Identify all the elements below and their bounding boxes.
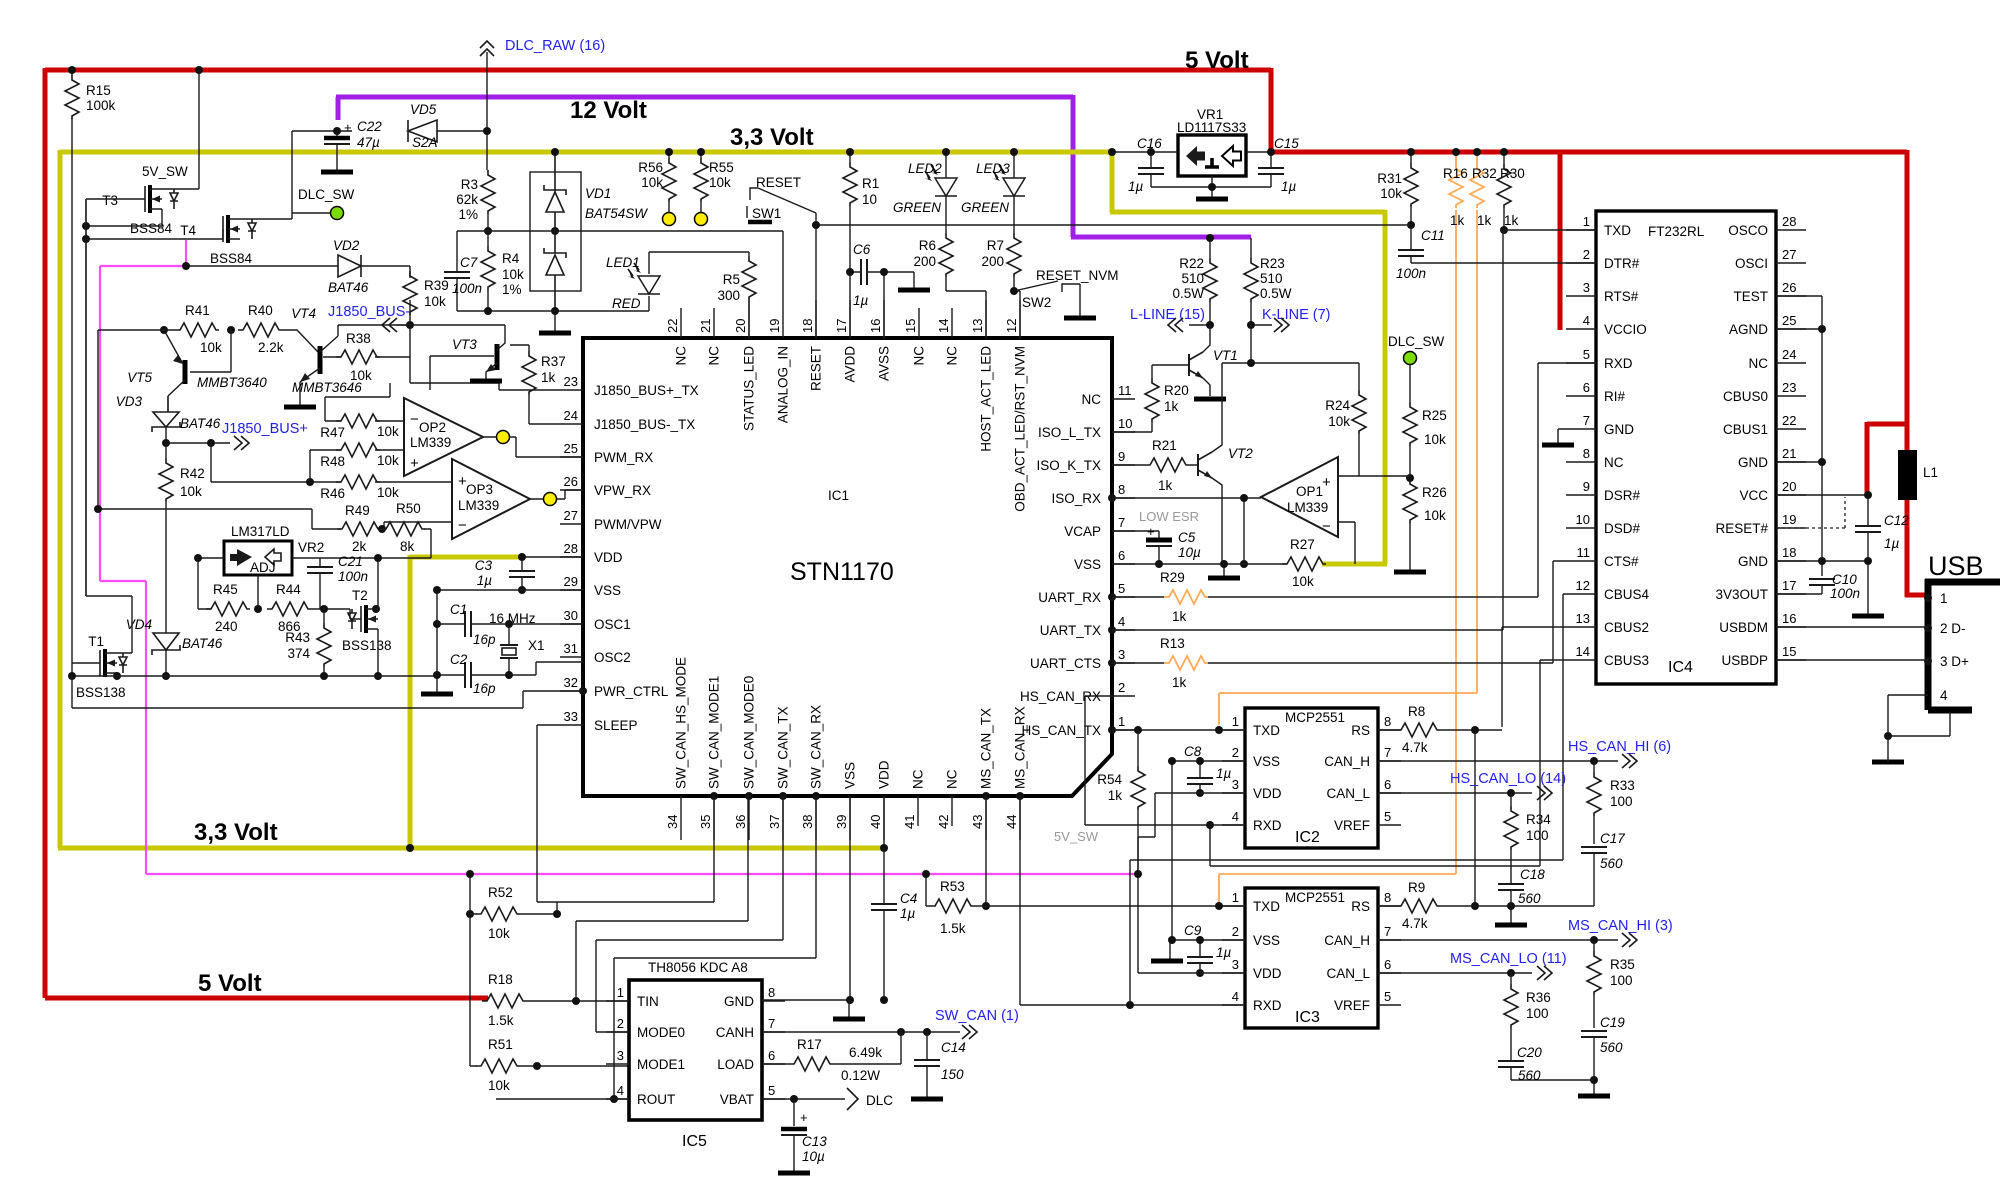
- svg-text:6: 6: [1384, 957, 1391, 972]
- IC1 pin 10 ISO_L_TX: [1038, 416, 1135, 440]
- svg-text:0.12W: 0.12W: [841, 1068, 880, 1083]
- resistor R18: [482, 972, 629, 1028]
- wire R53 to IC3 TXD: [974, 905, 1243, 907]
- svg-text:BSS138: BSS138: [342, 638, 392, 653]
- IC1 pin 15 NC: [903, 308, 927, 366]
- svg-text:4: 4: [1940, 688, 1948, 703]
- svg-text:C14: C14: [941, 1040, 966, 1055]
- svg-text:1k: 1k: [1164, 399, 1179, 414]
- svg-text:VSS: VSS: [594, 583, 621, 598]
- resistor R31: [1377, 152, 1418, 225]
- resistor R25: [1403, 364, 1447, 478]
- svg-text:1.5k: 1.5k: [940, 921, 966, 936]
- svg-text:HOST_ACT_LED: HOST_ACT_LED: [979, 346, 994, 452]
- svg-text:C5: C5: [1178, 530, 1196, 545]
- svg-text:+: +: [1147, 524, 1155, 539]
- wire 3.3V yellow rail: [58, 150, 1387, 848]
- svg-text:R53: R53: [940, 879, 965, 894]
- svg-text:VD1: VD1: [585, 186, 611, 201]
- IC1 pin 18 RESET: [800, 300, 824, 391]
- svg-text:IC1: IC1: [828, 488, 849, 503]
- net label MS_CAN_HI: [1568, 918, 1673, 947]
- svg-text:22: 22: [665, 319, 680, 333]
- svg-text:R50: R50: [396, 501, 421, 516]
- resistor R51: [470, 1037, 629, 1093]
- svg-text:27: 27: [1782, 247, 1796, 262]
- svg-text:LED1: LED1: [606, 255, 640, 270]
- svg-text:2: 2: [1232, 924, 1239, 939]
- svg-text:RESET: RESET: [756, 175, 801, 190]
- svg-text:T2: T2: [352, 588, 368, 603]
- svg-text:4: 4: [1232, 989, 1239, 1004]
- svg-text:1k: 1k: [1108, 788, 1123, 803]
- svg-text:28: 28: [564, 541, 578, 556]
- IC4 pin 27 OSCI: [1735, 247, 1806, 271]
- svg-text:GREEN: GREEN: [893, 200, 941, 215]
- svg-text:MS_CAN_HI (3): MS_CAN_HI (3): [1568, 918, 1673, 934]
- svg-text:TXD: TXD: [1253, 899, 1280, 914]
- svg-text:5: 5: [768, 1083, 775, 1098]
- IC1 pin 21 NC: [698, 308, 722, 366]
- wire IC3 VDD to 5V_SW column: [1138, 837, 1245, 973]
- svg-text:41: 41: [902, 815, 917, 829]
- IC4 pin 13 CBUS2: [1566, 611, 1649, 635]
- IC1 pin 7 VCAP: [1064, 515, 1135, 539]
- wire CANH to SW_CAN: [762, 1031, 960, 1033]
- IC4 pin 26 TEST: [1733, 280, 1806, 304]
- ground below VR1: [1196, 198, 1228, 200]
- svg-text:3 D+: 3 D+: [1940, 654, 1969, 669]
- svg-text:C12: C12: [1884, 513, 1909, 528]
- op-amp OP3 LM339: [452, 459, 530, 539]
- wire CBUS2 riser: [1502, 627, 1566, 727]
- svg-text:R8: R8: [1408, 704, 1425, 719]
- svg-text:+: +: [800, 1110, 808, 1125]
- svg-text:C13: C13: [802, 1134, 827, 1149]
- svg-text:VSS: VSS: [1253, 933, 1280, 948]
- svg-text:5: 5: [1118, 581, 1125, 596]
- svg-text:−: −: [410, 411, 419, 428]
- IC1 pin 1 HS_CAN_TX: [1021, 714, 1135, 738]
- resistor R33: [1587, 761, 1635, 844]
- svg-text:VCCIO: VCCIO: [1604, 322, 1647, 337]
- svg-text:MS_CAN_RX: MS_CAN_RX: [1013, 706, 1028, 789]
- capacitor C1: [437, 602, 583, 647]
- svg-text:1k: 1k: [1158, 478, 1173, 493]
- svg-text:100: 100: [1526, 828, 1549, 843]
- transistor VT1 MMBT: [1189, 348, 1238, 378]
- svg-text:C18: C18: [1520, 867, 1545, 882]
- wire R41 left feed: [98, 330, 175, 509]
- wire pin37 to MODE0: [596, 796, 783, 1032]
- svg-text:200: 200: [913, 254, 936, 269]
- ground IC3 VSS: [1151, 960, 1183, 962]
- svg-text:1k: 1k: [1504, 213, 1519, 228]
- wire CAN_L HS to flag: [1378, 792, 1532, 794]
- svg-text:200: 200: [981, 254, 1004, 269]
- svg-text:OP2: OP2: [419, 420, 446, 435]
- transistor T2 BSS138: [342, 588, 392, 653]
- svg-text:HS_CAN_HI (6): HS_CAN_HI (6): [1568, 739, 1671, 755]
- capacitor C17: [1581, 831, 1625, 906]
- wire IC2 RXD to HS_CAN_RX: [1085, 696, 1245, 825]
- net label K-LINE: [1251, 307, 1331, 332]
- svg-text:28: 28: [1782, 214, 1796, 229]
- svg-text:5: 5: [1384, 809, 1391, 824]
- svg-text:31: 31: [564, 641, 578, 656]
- IC5 pin 8 GND: [724, 985, 785, 1009]
- svg-text:3: 3: [1118, 647, 1125, 662]
- svg-text:37: 37: [767, 815, 782, 829]
- wire ROUT stub left: [496, 1098, 629, 1100]
- svg-text:HS_CAN_TX: HS_CAN_TX: [1021, 723, 1101, 738]
- svg-text:8: 8: [1384, 714, 1391, 729]
- wire USBDM to USB 2: [1776, 626, 1928, 628]
- wire battery divider node: [457, 231, 783, 300]
- IC1 pin 33 SLEEP: [560, 709, 638, 733]
- svg-text:R23: R23: [1260, 256, 1285, 271]
- svg-text:ANALOG_IN: ANALOG_IN: [776, 346, 791, 423]
- resistor R34: [1504, 793, 1551, 884]
- svg-text:+: +: [410, 455, 419, 472]
- wire T4 drain riser to C22 node: [240, 131, 352, 219]
- transistor T4 BSS84: [180, 215, 256, 266]
- svg-text:16: 16: [1782, 611, 1796, 626]
- wire VCC pin20 to C12: [1776, 494, 1868, 496]
- svg-text:R36: R36: [1526, 990, 1551, 1005]
- svg-text:100n: 100n: [338, 569, 368, 584]
- IC2 pin 3 VDD: [1222, 777, 1282, 801]
- svg-text:R20: R20: [1164, 383, 1189, 398]
- svg-text:AVDD: AVDD: [843, 346, 858, 383]
- svg-text:RXD: RXD: [1604, 356, 1633, 371]
- IC1 pin 9 ISO_K_TX: [1036, 449, 1135, 473]
- capacitor C2: [437, 652, 583, 696]
- svg-text:14: 14: [936, 319, 951, 333]
- resistor R50: [381, 501, 431, 558]
- svg-text:CBUS1: CBUS1: [1723, 422, 1768, 437]
- IC4 pin 20 VCC: [1739, 479, 1806, 503]
- svg-text:C20: C20: [1517, 1045, 1542, 1060]
- svg-text:100: 100: [1610, 973, 1633, 988]
- resistor R38: [323, 331, 410, 383]
- svg-text:3: 3: [1232, 957, 1239, 972]
- svg-text:1: 1: [1118, 714, 1125, 729]
- svg-text:2: 2: [1118, 680, 1125, 695]
- IC1 pin 42 NC: [936, 769, 960, 829]
- svg-text:18: 18: [800, 319, 815, 333]
- svg-text:LM339: LM339: [410, 435, 451, 450]
- wire R40 to VT4 base: [282, 330, 318, 352]
- svg-text:560: 560: [1518, 891, 1541, 906]
- svg-text:IC4: IC4: [1668, 659, 1693, 676]
- IC1 pin 44 MS_CAN_RX: [1004, 706, 1028, 840]
- junction dots on IC1 edges: [579, 494, 1116, 800]
- wire OP3 minus input: [384, 522, 452, 529]
- svg-text:DSR#: DSR#: [1604, 488, 1641, 503]
- capacitor C20: [1498, 1045, 1594, 1083]
- svg-text:62k: 62k: [456, 192, 478, 207]
- IC U IC2 MCP2551: [1245, 708, 1378, 848]
- resistor R44: [267, 582, 361, 634]
- svg-text:10k: 10k: [1424, 508, 1446, 523]
- svg-text:VD5: VD5: [410, 102, 437, 117]
- IC4 pin 15 USBDP: [1721, 644, 1806, 668]
- svg-text:1µ: 1µ: [1128, 179, 1144, 194]
- ground below VT3: [470, 380, 502, 382]
- svg-text:3,3 Volt: 3,3 Volt: [730, 124, 814, 151]
- node R56 yellow: [663, 213, 676, 226]
- IC4 pin 6 RI#: [1566, 380, 1626, 404]
- svg-text:ISO_RX: ISO_RX: [1051, 491, 1101, 506]
- svg-text:R21: R21: [1152, 438, 1177, 453]
- resistor R1: [843, 152, 879, 339]
- wire OP1 minus input: [1338, 522, 1355, 564]
- capacitor C7: [444, 231, 482, 311]
- svg-text:39: 39: [834, 815, 849, 829]
- svg-text:300: 300: [717, 288, 740, 303]
- svg-text:100: 100: [1610, 794, 1633, 809]
- svg-text:C3: C3: [475, 558, 493, 573]
- capacitor C19: [1581, 1015, 1625, 1094]
- transistor T3 BSS84: [102, 164, 188, 236]
- svg-text:510: 510: [1181, 271, 1204, 286]
- svg-text:VCAP: VCAP: [1064, 524, 1101, 539]
- svg-text:VD2: VD2: [333, 238, 360, 253]
- svg-text:1.5k: 1.5k: [488, 1013, 514, 1028]
- svg-text:4.7k: 4.7k: [1402, 916, 1428, 931]
- svg-text:9: 9: [1118, 449, 1125, 464]
- wire RESET#19 dashed: [1776, 497, 1845, 528]
- wire T4 to DLC_SW node: [292, 212, 330, 214]
- svg-text:100n: 100n: [452, 281, 482, 296]
- wire OP3 output to VPW_RX: [530, 490, 583, 499]
- svg-text:R46: R46: [320, 486, 345, 501]
- svg-text:100k: 100k: [86, 98, 116, 113]
- svg-text:OP1: OP1: [1296, 484, 1323, 499]
- svg-text:LM317LD: LM317LD: [231, 524, 290, 539]
- svg-text:VT3: VT3: [452, 337, 477, 352]
- svg-text:RED: RED: [612, 296, 641, 311]
- ground below VD1: [539, 332, 571, 334]
- svg-text:VD4: VD4: [126, 617, 152, 632]
- svg-text:TEST: TEST: [1733, 289, 1768, 304]
- ground below C19: [1578, 1095, 1610, 1097]
- wire pin36 to TIN column: [576, 796, 748, 1001]
- capacitor C12: [1855, 497, 1909, 561]
- resistor R55: [694, 152, 734, 212]
- svg-text:NC: NC: [1082, 392, 1102, 407]
- IC1 pin 29 VSS: [560, 574, 621, 598]
- svg-text:RTS#: RTS#: [1604, 289, 1639, 304]
- svg-text:NC: NC: [1604, 455, 1624, 470]
- svg-text:CANH: CANH: [716, 1025, 754, 1040]
- svg-text:21: 21: [1782, 446, 1796, 461]
- svg-text:DLC_SW: DLC_SW: [1388, 334, 1445, 349]
- svg-text:11: 11: [1118, 383, 1132, 398]
- IC1 pin 34 SW_CAN_HS_MODE: [665, 657, 689, 840]
- wire 5V_SW feed column: [469, 874, 471, 1066]
- svg-text:5V_SW: 5V_SW: [142, 164, 188, 179]
- wire VSS pin29 rail: [437, 590, 583, 692]
- IC4 pin 16 USBDM: [1719, 611, 1806, 635]
- svg-text:R22: R22: [1179, 256, 1204, 271]
- svg-text:R45: R45: [213, 582, 238, 597]
- wire VBAT to DLC: [762, 1098, 845, 1100]
- wire CAN_H HS to flag: [1378, 760, 1618, 762]
- transistor VT4 MMBT3646: [291, 306, 362, 405]
- svg-text:VDD: VDD: [1253, 966, 1282, 981]
- IC1 pin 16 AVSS: [868, 300, 892, 381]
- IC2 pin 7 CAN_H: [1324, 745, 1401, 769]
- resistor R45: [206, 582, 250, 634]
- capacitor C3: [475, 557, 583, 590]
- svg-text:USB: USB: [1928, 551, 1984, 581]
- net label MS_CAN_LO: [1450, 951, 1567, 980]
- IC1 pin 22 NC: [665, 308, 689, 366]
- wire VR1 in/out: [1113, 152, 1271, 197]
- svg-text:10k: 10k: [350, 368, 372, 383]
- svg-text:DLC_SW: DLC_SW: [298, 187, 355, 202]
- switch SW2 RESET_NVM: [1014, 268, 1119, 316]
- svg-text:SW1: SW1: [752, 206, 781, 221]
- svg-text:R9: R9: [1408, 880, 1425, 895]
- svg-text:10k: 10k: [709, 175, 731, 190]
- svg-text:2k: 2k: [352, 539, 367, 554]
- svg-text:NC: NC: [911, 769, 926, 789]
- svg-text:R56: R56: [638, 160, 663, 175]
- svg-text:2: 2: [1583, 247, 1590, 262]
- IC1 pin 26 VPW_RX: [560, 474, 651, 498]
- svg-text:CAN_H: CAN_H: [1324, 754, 1370, 769]
- resistor R49: [337, 503, 381, 554]
- svg-text:1: 1: [617, 985, 624, 1000]
- IC1 pin 12 OBD_ACT_LED/RST_NVM: [1004, 300, 1028, 512]
- resistor R21: [1112, 438, 1198, 493]
- IC1 pin 35 SW_CAN_MODE1: [698, 676, 722, 840]
- wire T1 drain riser: [86, 199, 132, 653]
- svg-text:STATUS_LED: STATUS_LED: [742, 346, 757, 431]
- capacitor C5 electrolytic: [1146, 524, 1201, 560]
- capacitor C18: [1498, 867, 1545, 906]
- svg-text:C17: C17: [1600, 831, 1625, 846]
- wire RS node to C17/C18 ground: [1475, 906, 1594, 923]
- IC3 pin 8 RS: [1351, 890, 1401, 914]
- svg-text:L1: L1: [1923, 465, 1938, 480]
- diode VD2 BAT46: [186, 238, 410, 295]
- IC1 pin 41 NC: [902, 769, 926, 829]
- svg-text:8: 8: [768, 985, 775, 1000]
- svg-text:3,3 Volt: 3,3 Volt: [194, 819, 278, 846]
- svg-text:SW_CAN (1): SW_CAN (1): [935, 1008, 1019, 1024]
- svg-text:IC2: IC2: [1295, 829, 1320, 846]
- svg-text:10µ: 10µ: [1178, 545, 1201, 560]
- svg-text:12 Volt: 12 Volt: [570, 97, 647, 124]
- svg-text:10k: 10k: [180, 484, 202, 499]
- svg-text:RESET#: RESET#: [1715, 521, 1768, 536]
- wire T2 drain/source: [376, 558, 378, 676]
- capacitor C11: [1396, 225, 1445, 281]
- svg-text:7: 7: [1384, 745, 1391, 760]
- wire T3 source to 5V: [162, 70, 199, 189]
- svg-text:CBUS4: CBUS4: [1604, 587, 1650, 602]
- svg-text:T4: T4: [180, 223, 196, 238]
- svg-text:1: 1: [1232, 714, 1239, 729]
- net label J1850_BUS+: [166, 421, 308, 450]
- IC4 pin 4 VCCIO: [1566, 313, 1647, 337]
- wire IC2 VDD to 5V_SW: [1138, 793, 1245, 837]
- wire pin24: [529, 423, 560, 425]
- svg-text:C11: C11: [1421, 228, 1445, 243]
- svg-text:2.2k: 2.2k: [258, 340, 284, 355]
- wire VSS loop h708: [72, 676, 583, 708]
- svg-text:SLEEP: SLEEP: [594, 718, 638, 733]
- svg-text:4: 4: [1583, 313, 1590, 328]
- svg-text:C7: C7: [460, 255, 478, 270]
- svg-text:1µ: 1µ: [1281, 179, 1297, 194]
- svg-text:VDD: VDD: [594, 550, 623, 565]
- svg-text:LOW ESR: LOW ESR: [1139, 509, 1199, 524]
- svg-text:R38: R38: [346, 331, 371, 346]
- wire BUS- node: [338, 325, 560, 390]
- svg-text:13: 13: [1576, 611, 1590, 626]
- ground below C6: [898, 289, 930, 291]
- resistor R26: [1403, 478, 1447, 570]
- wire OP1 plus input: [1338, 475, 1410, 477]
- svg-text:12: 12: [1576, 578, 1590, 593]
- resistor R20: [1145, 365, 1189, 432]
- svg-text:30: 30: [564, 608, 578, 623]
- svg-text:20: 20: [1782, 479, 1796, 494]
- IC U IC5 TH8056: [629, 960, 762, 1150]
- svg-text:SW_CAN_MODE1: SW_CAN_MODE1: [707, 676, 722, 789]
- voltage regulator VR2 LM317LD: [224, 524, 324, 575]
- svg-text:4.7k: 4.7k: [1402, 740, 1428, 755]
- svg-text:1k: 1k: [1172, 675, 1187, 690]
- svg-text:MCP2551: MCP2551: [1285, 890, 1345, 905]
- svg-text:LED2: LED2: [908, 161, 942, 176]
- ground below VSS rail: [1208, 577, 1240, 579]
- svg-text:10: 10: [1118, 416, 1132, 431]
- svg-text:10k: 10k: [424, 294, 446, 309]
- transistor VT5 MMBT3640: [127, 330, 267, 412]
- svg-text:510: 510: [1260, 271, 1283, 286]
- svg-text:SW_CAN_MODE0: SW_CAN_MODE0: [742, 676, 757, 789]
- svg-text:10k: 10k: [1424, 432, 1446, 447]
- capacitor C6: [850, 242, 914, 339]
- svg-text:R32: R32: [1472, 166, 1497, 181]
- svg-text:PWM_RX: PWM_RX: [594, 450, 653, 465]
- resistor R41: [175, 303, 222, 355]
- svg-text:PWR_CTRL: PWR_CTRL: [594, 684, 669, 699]
- IC1 pin 25 PWM_RX: [560, 441, 653, 465]
- IC4 pin 28 OSCO: [1728, 214, 1806, 238]
- wire pin38 to ROUT: [614, 796, 816, 1099]
- svg-text:22: 22: [1782, 413, 1796, 428]
- svg-text:10k: 10k: [502, 267, 524, 282]
- svg-text:GND: GND: [1604, 422, 1634, 437]
- svg-text:C4: C4: [900, 891, 917, 906]
- svg-text:R30: R30: [1500, 166, 1525, 181]
- svg-text:3V3OUT: 3V3OUT: [1715, 587, 1768, 602]
- node R55 yellow: [695, 213, 708, 226]
- svg-text:RI#: RI#: [1604, 389, 1626, 404]
- resistor R3: [456, 170, 495, 231]
- resistor R5: [717, 252, 756, 339]
- svg-text:R42: R42: [180, 466, 205, 481]
- wire 5V_SW pink trace: [100, 240, 1138, 874]
- LED LED2 GREEN: [893, 152, 957, 233]
